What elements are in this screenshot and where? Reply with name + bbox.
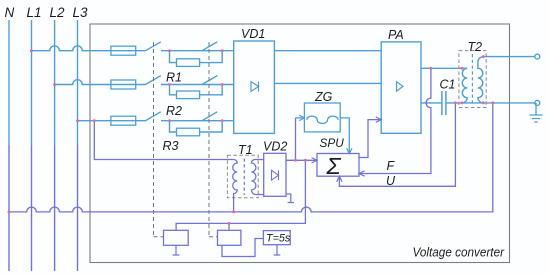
node split row2 [168, 83, 171, 86]
resistor R1 branch [170, 51, 223, 63]
summer output to PA control input [359, 120, 381, 158]
node T2 secondary bottom [482, 101, 485, 104]
node neutral tap on output [491, 101, 494, 104]
node control tap row3 [93, 119, 96, 122]
svg-text:C1: C1 [440, 78, 456, 92]
wire C1 to T2 and output bottom rail [446, 102, 535, 104]
svg-text:L2: L2 [50, 5, 66, 20]
switch S2 blade [146, 76, 161, 85]
svg-text:T2: T2 [468, 40, 483, 54]
wire PA to C1 [421, 102, 441, 104]
switch S1 blade [146, 42, 161, 51]
wire row3 from L3 [78, 120, 234, 122]
arrow into PA left [376, 117, 381, 122]
T1 core dashed [243, 159, 245, 196]
svg-text:L3: L3 [73, 5, 89, 20]
node K2 on supply line [228, 222, 231, 225]
arrow U into summer bottom [337, 176, 342, 182]
output terminal bottom [535, 100, 540, 105]
bypass switch S4 blade row1 [202, 42, 217, 51]
relay coil K2 [218, 230, 241, 245]
timer block T=5s [263, 231, 290, 245]
wire VD1 to PA top [274, 50, 381, 52]
node N return [8, 210, 11, 213]
T1 primary winding [233, 159, 238, 211]
oscillator block ZG [304, 103, 340, 132]
linkage dashed to contactor K2 [209, 42, 218, 237]
node split row1 [168, 49, 171, 52]
arrow F into summer right [359, 171, 365, 176]
svg-text:VD1: VD1 [241, 27, 265, 41]
rail L2 [54, 20, 56, 145]
fuse FU1 [111, 46, 136, 55]
svg-text:Σ: Σ [326, 153, 342, 179]
arrow into ZG left [299, 115, 304, 120]
svg-text:PA: PA [388, 28, 404, 42]
node T2 secondary top [482, 55, 485, 58]
output terminal top [535, 54, 540, 59]
T2 core dashed [471, 54, 473, 106]
T1 secondary winding [251, 159, 256, 194]
bypass switch S6 blade row3 [202, 112, 217, 121]
relay K2 supply stub [228, 223, 230, 230]
node row2 tap on L2 [53, 83, 56, 86]
fuse FU3 [111, 116, 136, 125]
svg-text:VD2: VD2 [263, 140, 287, 154]
transformer T1 dashed box [227, 155, 258, 198]
svg-text:R1: R1 [166, 71, 182, 85]
relay coil K1 [164, 230, 189, 245]
relay supply drop from VD2 output wire [176, 160, 305, 230]
ground symbol [530, 103, 543, 122]
timer common terminator [274, 245, 281, 255]
node T2 primary top [460, 67, 463, 70]
node row3 tap on L3 [76, 119, 79, 122]
rectifier block VD1 [234, 41, 275, 133]
svg-text:L1: L1 [27, 5, 42, 20]
amplifier block PA [381, 42, 421, 133]
svg-text:U: U [386, 174, 396, 188]
node rejoin row1 [221, 49, 224, 52]
svg-text:R3: R3 [163, 139, 179, 153]
node ZG tap [294, 159, 297, 162]
diode symbol in VD2 [272, 170, 279, 180]
wire VD1 to PA bottom [274, 82, 381, 84]
wire PA to T2 primary top [421, 67, 467, 69]
wire K2 to timer [222, 239, 263, 257]
node relay supply tap [304, 159, 307, 162]
node F tap [429, 67, 432, 70]
wire T2 secondary to output terminal [483, 56, 535, 58]
K1 common terminator [173, 245, 180, 255]
svg-text:T=5s: T=5s [266, 232, 291, 244]
arrow into summer left [312, 158, 317, 163]
capacitor C1 [442, 91, 446, 115]
linkage dashed to contactor K1 [154, 42, 164, 237]
node T2 primary bottom [461, 101, 464, 104]
wire row1 from L1 with hops over L2,L3 [32, 46, 234, 51]
svg-text:F: F [387, 159, 396, 173]
svg-text:N: N [5, 5, 15, 20]
switch S3 blade [146, 112, 161, 121]
triangle symbol in PA [397, 82, 404, 92]
resistor R3 branch [170, 121, 223, 132]
svg-text:T1: T1 [238, 143, 253, 157]
sine symbol in ZG [307, 116, 338, 123]
node row1 tap on L1 [30, 49, 33, 52]
feedback F: tap on PA output, down with hop, to summer [359, 68, 431, 173]
node T1 on neutral line [232, 210, 235, 213]
node rejoin row3 [221, 119, 224, 122]
arrow into summer top [347, 148, 352, 153]
rectifier block VD2 [264, 153, 286, 196]
svg-text:SPU: SPU [320, 136, 345, 150]
wire row2 from L2 with hop over L3 [55, 80, 234, 85]
resistor R2 branch [170, 85, 223, 95]
svg-text:Voltage converter: Voltage converter [413, 244, 505, 259]
rail L3 [77, 20, 79, 145]
wire VD2 to summer [286, 159, 317, 161]
summer block SPU [317, 154, 359, 177]
wire T1 secondary top to VD2 [255, 159, 264, 161]
wire T1 secondary bottom to VD2 [256, 194, 264, 196]
node split row3 [168, 119, 171, 122]
bypass switch S5 blade row2 [202, 76, 217, 85]
ZG output to summer top [340, 118, 349, 154]
frame border [90, 24, 510, 263]
fuse FU2 [111, 80, 136, 89]
ZG input tap wire [295, 118, 297, 160]
svg-text:R2: R2 [166, 104, 182, 118]
svg-text:ZG: ZG [314, 90, 333, 104]
rail N [8, 20, 10, 145]
common symbol under VD2 [286, 194, 294, 203]
T2 primary winding [462, 68, 467, 103]
transformer T2 dashed box [459, 51, 486, 108]
T2 secondary winding [478, 57, 483, 103]
node U tap [454, 101, 457, 104]
neutral return wire from N with hops [9, 103, 493, 212]
rail L1 [31, 20, 33, 145]
feedback U: tap between C1 and T2, down, to summer bottom [339, 103, 455, 186]
control tap from row3 to T1 primary [94, 121, 233, 160]
node rejoin row2 [221, 83, 224, 86]
diode symbol in VD1 [251, 82, 259, 92]
